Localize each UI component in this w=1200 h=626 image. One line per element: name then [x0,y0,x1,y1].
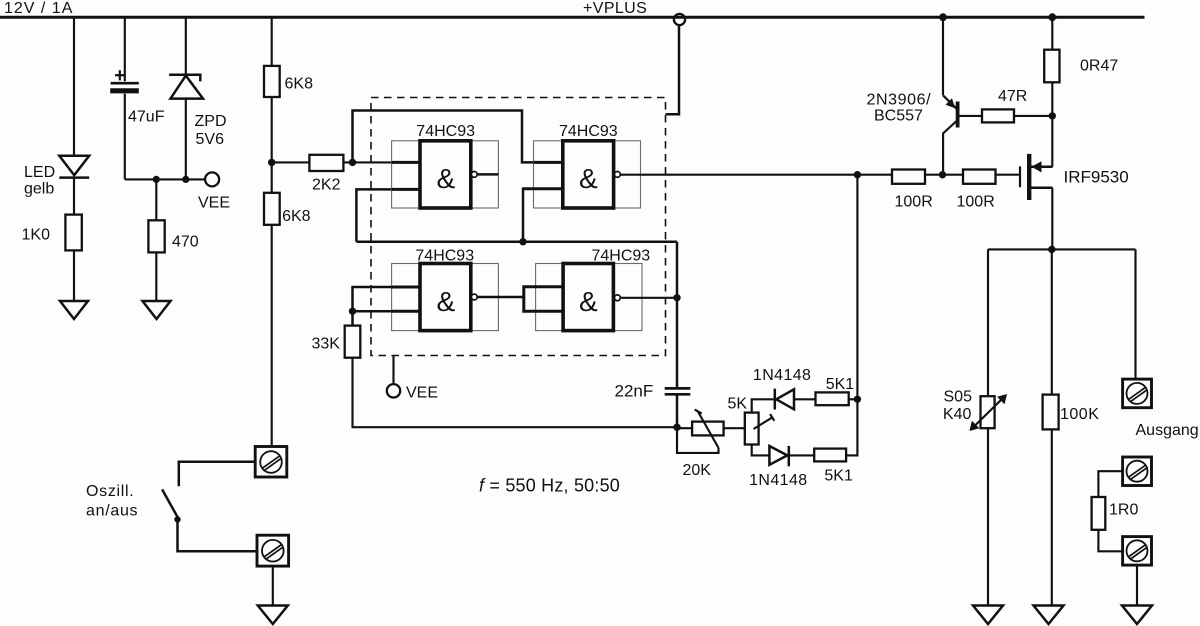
wire 100R to MOSFET gate [996,174,1020,176]
node dot RC junction [673,424,680,431]
potentiometer 5K wiper tick [770,414,774,421]
wire 1K0 to ground [73,250,75,301]
wire 22nF to RC node [676,394,679,427]
gate U1D input tie bar [524,287,563,312]
terminal T1 screw slot [1129,387,1147,402]
svg-text:1R0: 1R0 [1109,502,1138,519]
svg-text:100R: 100R [895,194,933,211]
ground under LED [60,301,88,319]
diode LED (triangle) [59,156,89,175]
capacitor 47uF top plate [111,82,139,85]
capacitor 47uF plus sign [115,70,126,80]
resistor 5K1 lower [814,449,846,462]
node dot rail / 0R47 [1048,13,1056,21]
wire VEE node to 470 [155,179,157,220]
node dot zener junction [182,176,189,183]
switch contact stub from terminal A [179,462,255,487]
wire 6K8 lower down to terminal A [271,225,273,447]
transistor Q1 emitter arrow (PNP) [946,98,956,108]
node dot 2K2 output [349,159,356,166]
terminal B screw circle [262,540,284,562]
svg-text:5K1: 5K1 [824,467,853,484]
node +VPLUS terminal circle [674,14,685,25]
wire 20K to 5K wiper [724,427,746,429]
gate U1C input stub 2 [392,310,420,313]
ground under 100K [1034,606,1064,625]
gate U1A input stub 2 [392,188,420,191]
wire 47R to 0R47 node [1014,115,1052,117]
zener ZPD 5V6 cathode bar with tick [169,75,200,82]
wire gate2 input2 vertical [523,189,534,242]
resistor 1K0 [65,215,81,251]
wire switch to terminal B [178,520,258,552]
svg-text:2N3906/: 2N3906/ [867,92,932,109]
terminal T1 Ausgang square [1123,379,1152,408]
wire to varistor S05 K40 [987,249,989,396]
MOSFET Q2 arrow [1031,161,1041,172]
resistor 1R0 [1092,497,1106,530]
svg-text:470: 470 [172,234,199,251]
wire output node to terminal T1 [1134,249,1136,379]
wire +VPLUS drop to IC supply [666,25,680,114]
svg-text:12V / 1A: 12V / 1A [4,0,73,17]
wire 0R47 to MOSFET drain [1051,82,1053,167]
svg-text:100R: 100R [957,194,995,211]
svg-text:6K8: 6K8 [285,76,314,93]
terminal A screw circle [260,451,282,473]
resistor 100K [1043,395,1059,430]
terminal T3 screw slot [1129,545,1147,560]
resistor 2K2 [309,155,343,171]
gate U1A output bubble [471,172,477,178]
node dot diode network junction [854,396,861,403]
resistor 6K8 upper [264,66,280,97]
svg-text:ZPD: ZPD [195,113,227,130]
capacitor 22nF plate 1 [665,387,691,390]
resistor 6K8 lower [264,193,280,225]
gate U1C output bubble [471,294,477,300]
capacitor 47uF bottom plate [110,88,139,93]
node dot feedback/gate2-input2 junction [519,238,526,245]
resistor 100R first [892,170,925,184]
node dot cap/470 junction [153,176,160,183]
wire LED branch from rail [73,17,75,156]
terminal A square [255,447,287,478]
svg-text:VEE: VEE [198,195,230,212]
resistor 470 [148,220,164,252]
svg-text:&: & [436,286,455,317]
terminal T3 screw circle [1127,540,1148,561]
MOSFET Q2 source wire lower [1031,186,1053,189]
resistor 33K [345,326,361,358]
gate U1D output bubble [615,295,621,301]
node VEE terminal circle [205,172,219,186]
resistor 100R second [963,170,996,184]
transistor Q1 base bar [956,102,960,128]
svg-text:LED: LED [24,164,55,181]
varistor arrowhead lower [969,421,979,431]
svg-text:&: & [579,163,598,194]
potentiometer 20K wiper diagonal [698,412,718,448]
node dot 33K/gate inputs junction [349,308,356,315]
diode LED cathode bar [59,176,89,179]
varistor arrowhead upper [997,394,1007,404]
svg-text:5K: 5K [728,396,748,413]
svg-text:0R47: 0R47 [1080,58,1118,75]
wire cap to VEE node [124,94,126,180]
svg-text:&: & [579,286,598,317]
gate U1B output bubble [615,172,621,178]
wire feedback bus horizontal [356,240,677,243]
terminal A screw slot [263,456,281,471]
terminal T2 square [1123,457,1152,486]
terminal T2 screw slot [1129,465,1147,480]
gate U1B input stub 1 [534,161,563,164]
wire terminal B to ground [272,566,274,605]
node dot switch pivot [174,516,180,522]
node VEE terminal circle (IC) [387,384,400,397]
wire 6K8 branch from rail [271,17,273,66]
wire 5K top to diode D1 [752,399,774,412]
svg-text:S05: S05 [944,388,973,405]
wire 2K2 to gate1 input1 [343,161,420,163]
node dot on gate output run [854,171,861,178]
wire 5K1 lower up to junction [846,399,857,455]
resistor 5K1 upper [816,392,849,405]
svg-text:22nF: 22nF [615,382,654,401]
varistor S05 K40 body [981,396,995,428]
wire 5K1 upper to node [849,398,858,400]
wire 100K to ground [1051,429,1053,605]
svg-text:K40: K40 [943,406,972,423]
MOSFET Q2 drain wire upper [1031,166,1053,169]
gate U1C thin frame [392,264,499,331]
svg-text:&: & [436,163,455,194]
wire zener branch from rail [185,17,187,75]
wire gate U1C output to gate U1D input bar [477,296,524,299]
svg-text:1K0: 1K0 [22,227,51,244]
terminal T2 screw circle [1127,461,1148,482]
diode D2 1N4148 cathode bar [788,446,791,466]
switch blade Oszill an/aus [162,489,178,517]
svg-text:47R: 47R [998,88,1027,105]
wire terminal T2 to 1R0 [1098,471,1122,497]
wire zener to VEE node [185,99,187,180]
IC dashed box 74HC93 [371,98,666,356]
svg-text:gelb: gelb [24,181,54,198]
MOSFET Q2 channel bar [1027,154,1031,200]
diode D1 1N4148 triangle [776,389,794,409]
svg-text:100K: 100K [1060,406,1099,423]
svg-text:5V6: 5V6 [196,131,225,148]
wire output node horizontal [988,248,1136,250]
potentiometer 20K wiper tick [695,410,702,414]
wire MOSFET lower to output node [1051,188,1053,250]
wire rail to 0R47 [1051,17,1053,50]
svg-text:2K2: 2K2 [312,177,341,194]
svg-text:47uF: 47uF [128,109,165,126]
terminal T3 square [1123,537,1152,566]
wire terminal T3 to ground [1136,565,1138,605]
wire cap branch from rail [124,17,126,81]
wire 20K wiper loop [677,427,719,453]
wire 6K8 upper to junction [271,97,273,193]
svg-text:5K1: 5K1 [826,376,855,393]
wire feedback 2K2 node up and over to gate2 input1 [353,111,534,163]
wire base to 47R [960,115,983,117]
diode D1 1N4148 cathode bar [774,389,777,410]
wire 33K down and across to RC node [353,358,678,428]
wire VEE node horizontal [125,178,205,180]
potentiometer 5K wiper diagonal [754,417,773,429]
gate U1A thin frame [392,141,499,208]
svg-text:1N4148: 1N4148 [753,367,811,384]
svg-text:Oszill.: Oszill. [86,483,134,500]
svg-text:74HC93: 74HC93 [559,123,618,140]
transistor Q1 emitter diagonal [943,95,957,109]
terminal B screw slot [264,545,282,560]
wire RC node into 20K [677,427,692,429]
potentiometer 20K body [692,422,724,436]
gate U1C input stub 1 [392,286,420,289]
wire LED to 1K0 [73,178,75,215]
varistor S05 K40 double arrow [974,398,1004,427]
svg-text:6K8: 6K8 [282,208,311,225]
resistor 47R [982,109,1014,122]
svg-text:an/aus: an/aus [86,503,138,520]
wire between 100R resistors [925,174,963,176]
svg-text:VEE: VEE [406,385,438,402]
wire 470 to ground [155,252,157,301]
ground under 470 [143,301,171,319]
gate U1C body [420,264,471,331]
ground under terminal T3 [1122,606,1152,625]
wire junction to 2K2 [272,161,310,163]
wire emitter from rail [942,17,944,95]
svg-text:BC557: BC557 [874,108,923,125]
svg-text:33K: 33K [312,336,341,353]
gate U1D thin frame [536,264,642,331]
gate U1B thin frame [534,141,641,208]
wire gate U1C input2 tap [353,310,392,313]
node dot output junction [1048,246,1055,253]
svg-text:20K: 20K [683,462,712,479]
terminal T1 screw circle [1127,383,1148,404]
gate U1D body [563,264,613,331]
node dot rail / transistor emitter [939,13,947,21]
svg-text:1N4148: 1N4148 [749,472,807,489]
wire 5K bottom to diode D2 [752,445,770,456]
terminal B square [257,535,289,566]
wire S05 to ground [987,428,989,605]
gate U1A output stub [477,173,498,176]
wire gate U1B output long run to 100R [620,174,892,176]
wire diode network to gate output run [856,175,858,400]
MOSFET Q2 gate bar [1019,166,1021,187]
gate U1A body [420,141,471,208]
svg-text:f = 550 Hz, 50:50: f = 550 Hz, 50:50 [479,476,620,496]
node dot 47R/0R47 junction [1049,112,1056,119]
gate U1A input stub 1 [392,161,420,164]
gate U1B input stub 2 [523,187,563,190]
wire gate1 input2 L from feedback bus [356,189,391,241]
ground under terminal B [258,606,288,625]
capacitor 22nF plate 2 [665,393,691,396]
svg-text:74HC93: 74HC93 [416,123,475,140]
wire IC VEE stub [392,356,394,385]
resistor 0R47 [1044,50,1059,83]
wire gate U1C input feed from 33K node [353,287,392,326]
svg-text:+VPLUS: +VPLUS [583,0,647,17]
wire output node to 100K [1051,249,1053,394]
wire gate U1D output to RC node [620,297,677,299]
wire +12V top rail [0,16,1145,19]
wire 1R0 to terminal T3 [1098,530,1122,552]
node dot gate U1D output junction [673,294,680,301]
transistor Q1 collector diagonal [943,121,957,175]
potentiometer 5K body [745,413,759,445]
ground under S05 [973,606,1003,625]
node dot collector/100R junction [939,171,946,178]
wire oscillator vertical x677 [676,242,679,388]
node dot 6K8/2K2 junction [268,159,275,166]
zener ZPD 5V6 triangle [171,76,204,99]
wire D2 to 5K1 lower [789,454,814,456]
svg-text:IRF9530: IRF9530 [1064,167,1129,186]
wire D1 to 5K1 [794,398,816,400]
diode D2 1N4148 triangle [769,446,787,465]
svg-text:Ausgang: Ausgang [1136,422,1199,439]
gate U1B body [563,141,614,208]
